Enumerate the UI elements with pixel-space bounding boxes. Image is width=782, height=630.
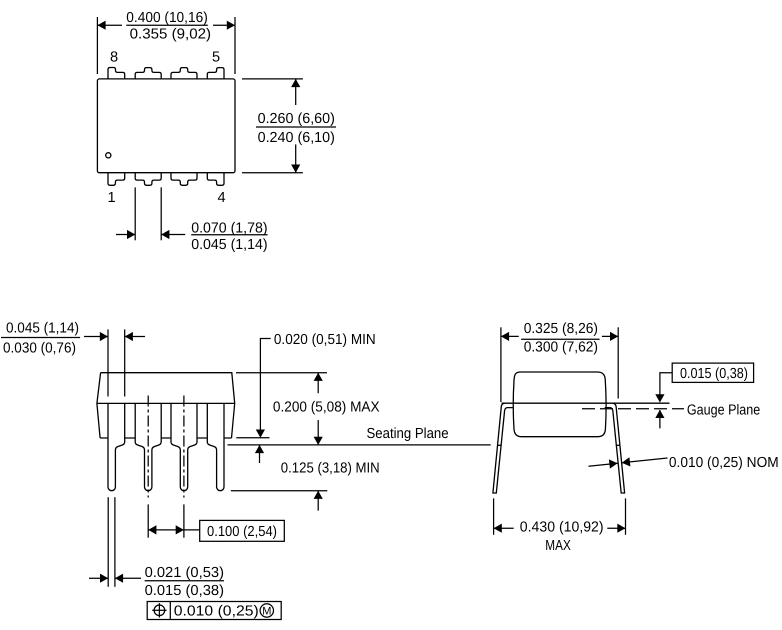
dim 0.070/0.045 arrow tails bbox=[116, 234, 135, 236]
dim 0.260/0.240 extension line top bbox=[242, 78, 303, 80]
right lead (end view) outer bbox=[605, 403, 625, 493]
position tolerance symbol bbox=[154, 605, 165, 616]
0.200 dim line segments bbox=[317, 373, 319, 394]
0.015 leader bbox=[660, 373, 672, 395]
seating plane line bbox=[228, 444, 491, 446]
svg-text:0.010 (0,25) NOM: 0.010 (0,25) NOM bbox=[669, 455, 779, 471]
arrowhead 0.430 right bbox=[617, 524, 625, 533]
svg-text:0.430 (10,92): 0.430 (10,92) bbox=[520, 520, 604, 536]
arrowhead 0.325 right bbox=[610, 332, 618, 341]
dim 0.325/0.300 dimension line segments bbox=[501, 335, 519, 337]
svg-text:0.030 (0,76): 0.030 (0,76) bbox=[3, 341, 76, 357]
pin 3 (top view) bbox=[171, 173, 197, 186]
arrowhead left of 0.400 dim bbox=[97, 21, 105, 30]
dim 0.021/0.015 arrow tails bbox=[89, 577, 108, 579]
svg-text:0.125 (3,18) MIN: 0.125 (3,18) MIN bbox=[281, 461, 380, 477]
dim 0.430 dimension line segments bbox=[494, 527, 514, 529]
dim 0.430 extension lines bbox=[493, 498, 495, 534]
arrowhead 0.430 left bbox=[494, 524, 502, 533]
centerline lead 3 bbox=[183, 396, 185, 498]
pin 6 (top view) bbox=[171, 68, 197, 79]
fraction bar 0.325/0.300 bbox=[521, 338, 600, 340]
centerline lead 2 bbox=[147, 396, 149, 498]
pin-1 index circle bbox=[106, 153, 111, 158]
svg-text:8: 8 bbox=[110, 50, 118, 66]
arrowhead 0.021 left bbox=[100, 574, 108, 583]
0.100 label box bbox=[200, 520, 285, 541]
arrowhead 0.010 left-pointing bbox=[622, 457, 631, 466]
svg-text:0.070 (1,78): 0.070 (1,78) bbox=[191, 221, 267, 237]
pin 4 (top view, bottom-right) bbox=[207, 173, 224, 186]
svg-text:1: 1 bbox=[108, 190, 116, 206]
arrowhead right-pointing at 0.070 left ext bbox=[127, 230, 135, 239]
arrowhead 0.020 down (at body bottom ext) bbox=[256, 430, 265, 438]
svg-text:M: M bbox=[262, 606, 271, 618]
side view parting line bbox=[97, 402, 235, 404]
arrowhead down of 0.260 dim bbox=[291, 165, 300, 173]
svg-text:4: 4 bbox=[218, 190, 226, 206]
body-top extension line (0.200 dim) bbox=[236, 372, 327, 374]
svg-text:0.021 (0,53): 0.021 (0,53) bbox=[145, 565, 224, 581]
pin 8 (top view, top-left) bbox=[108, 68, 125, 79]
dim 0.045/0.030 extension lines bbox=[107, 329, 109, 396]
arrowhead 0.021 right bbox=[115, 574, 123, 583]
arrowhead up of 0.260 dim bbox=[291, 79, 300, 87]
dim 0.021/0.015 extension lines bbox=[107, 497, 109, 587]
arrowhead 0.045 right bbox=[125, 332, 133, 341]
fraction bar 0.070/0.045 bbox=[191, 234, 267, 236]
dim 0.070/0.045 extension line right bbox=[160, 187, 162, 240]
arrowhead right of 0.400 dim bbox=[227, 21, 235, 30]
lead frame top line bbox=[502, 402, 670, 404]
dim 0.325/0.300 extension lines bbox=[500, 327, 502, 402]
fraction bar 0.045/0.030 bbox=[1, 337, 80, 339]
svg-text:0.045 (1,14): 0.045 (1,14) bbox=[6, 321, 79, 337]
svg-text:MAX: MAX bbox=[545, 538, 571, 554]
end view body (barrel) bbox=[513, 372, 606, 437]
svg-text:0.020 (0,51) MIN: 0.020 (0,51) MIN bbox=[274, 332, 376, 348]
arrowhead 0.015 down bbox=[655, 394, 664, 402]
0.100 dim extension lines (centerline extensions) bbox=[147, 504, 149, 537]
svg-text:0.240 (6,10): 0.240 (6,10) bbox=[258, 130, 335, 146]
seating tick right leg bbox=[616, 444, 620, 446]
arrowhead left-pointing at 0.070 right ext bbox=[161, 230, 169, 239]
seating tick left leg bbox=[497, 444, 501, 446]
dim 0.400/0.355 extension line right bbox=[234, 17, 236, 74]
arrowhead 0.045 left bbox=[100, 332, 108, 341]
pin 1 (top view, bottom-left) bbox=[108, 173, 125, 186]
arrowhead 0.020 up (below seating plane) bbox=[255, 445, 264, 453]
arrowhead 0.200 down bbox=[314, 437, 323, 445]
lead-tip extension line (0.125 dim) bbox=[231, 490, 327, 492]
lead 3 (side view) bbox=[171, 403, 197, 490]
0.010 NOM leader right bbox=[622, 458, 668, 463]
0.100 dim line bbox=[148, 529, 200, 531]
gauge plane dashed line bbox=[582, 408, 684, 410]
lead 1 (side view) bbox=[108, 403, 125, 490]
feature control frame box bbox=[147, 602, 281, 620]
svg-text:0.100 (2,54): 0.100 (2,54) bbox=[207, 524, 277, 540]
arrowhead 0.200 up bbox=[314, 373, 323, 381]
dim 0.400/0.355 extension line left bbox=[96, 17, 98, 74]
svg-text:0.260 (6,60): 0.260 (6,60) bbox=[258, 111, 335, 127]
svg-text:0.325 (8,26): 0.325 (8,26) bbox=[524, 321, 598, 337]
arrowhead 0.325 left bbox=[501, 332, 509, 341]
arrowhead 0.100 right bbox=[176, 525, 184, 534]
svg-text:0.355 (9,02): 0.355 (9,02) bbox=[130, 26, 212, 42]
lead 4 (side view) bbox=[207, 403, 224, 490]
dim 0.045/0.030 arrow tails bbox=[84, 336, 108, 338]
0.015 lower arrow tail bbox=[659, 410, 661, 428]
leader for 0.020 MIN bbox=[260, 339, 270, 431]
svg-text:0.045 (1,14): 0.045 (1,14) bbox=[191, 237, 267, 253]
svg-text:0.015 (0,38): 0.015 (0,38) bbox=[680, 366, 748, 382]
pin 7 (top view) bbox=[135, 68, 161, 79]
arrowhead 0.100 left bbox=[148, 525, 156, 534]
body-bottom extension line (0.020 dim) bbox=[236, 437, 269, 439]
svg-text:Gauge Plane: Gauge Plane bbox=[687, 402, 760, 418]
fraction bar 0.400/0.355 bbox=[126, 24, 208, 26]
package body (top view) bbox=[97, 79, 235, 173]
lead 2 (side view) bbox=[135, 403, 161, 490]
svg-text:0.400 (10,16): 0.400 (10,16) bbox=[126, 10, 208, 26]
svg-text:0.010 (0,25): 0.010 (0,25) bbox=[174, 604, 259, 620]
arrowhead 0.010 right-pointing bbox=[609, 459, 618, 468]
side view body outline bbox=[97, 373, 235, 438]
0.020 lower arrow tail bbox=[259, 445, 261, 463]
0.015 label box bbox=[672, 363, 753, 382]
dim 0.260/0.240 dimension line segments bbox=[295, 79, 297, 105]
0.125 lower arrow tail bbox=[317, 491, 319, 511]
svg-text:Seating Plane: Seating Plane bbox=[367, 426, 449, 442]
dim 0.400/0.355 dimension line segments bbox=[97, 24, 122, 26]
left lead (end view) outer bbox=[493, 403, 513, 493]
pin 2 (top view) bbox=[135, 173, 161, 186]
arrowhead 0.125 up (below lead-tip line) bbox=[314, 491, 323, 499]
arrowhead 0.015 up bbox=[655, 410, 664, 418]
svg-text:5: 5 bbox=[212, 50, 220, 66]
dim 0.260/0.240 extension line bottom bbox=[242, 172, 303, 174]
fraction bar 0.021/0.015 bbox=[145, 580, 224, 582]
M-in-circle symbol bbox=[260, 604, 273, 617]
svg-text:0.300 (7,62): 0.300 (7,62) bbox=[524, 340, 598, 356]
svg-text:0.200 (5,08) MAX: 0.200 (5,08) MAX bbox=[273, 400, 380, 416]
svg-text:0.015 (0,38): 0.015 (0,38) bbox=[145, 583, 224, 599]
0.010 NOM leader left bbox=[589, 463, 618, 466]
pin 5 (top view, top-right) bbox=[207, 68, 224, 79]
side view body bottom edge segments bbox=[100, 437, 231, 439]
fraction bar 0.260/0.240 bbox=[256, 126, 336, 128]
dim 0.070/0.045 extension line left bbox=[134, 187, 136, 240]
